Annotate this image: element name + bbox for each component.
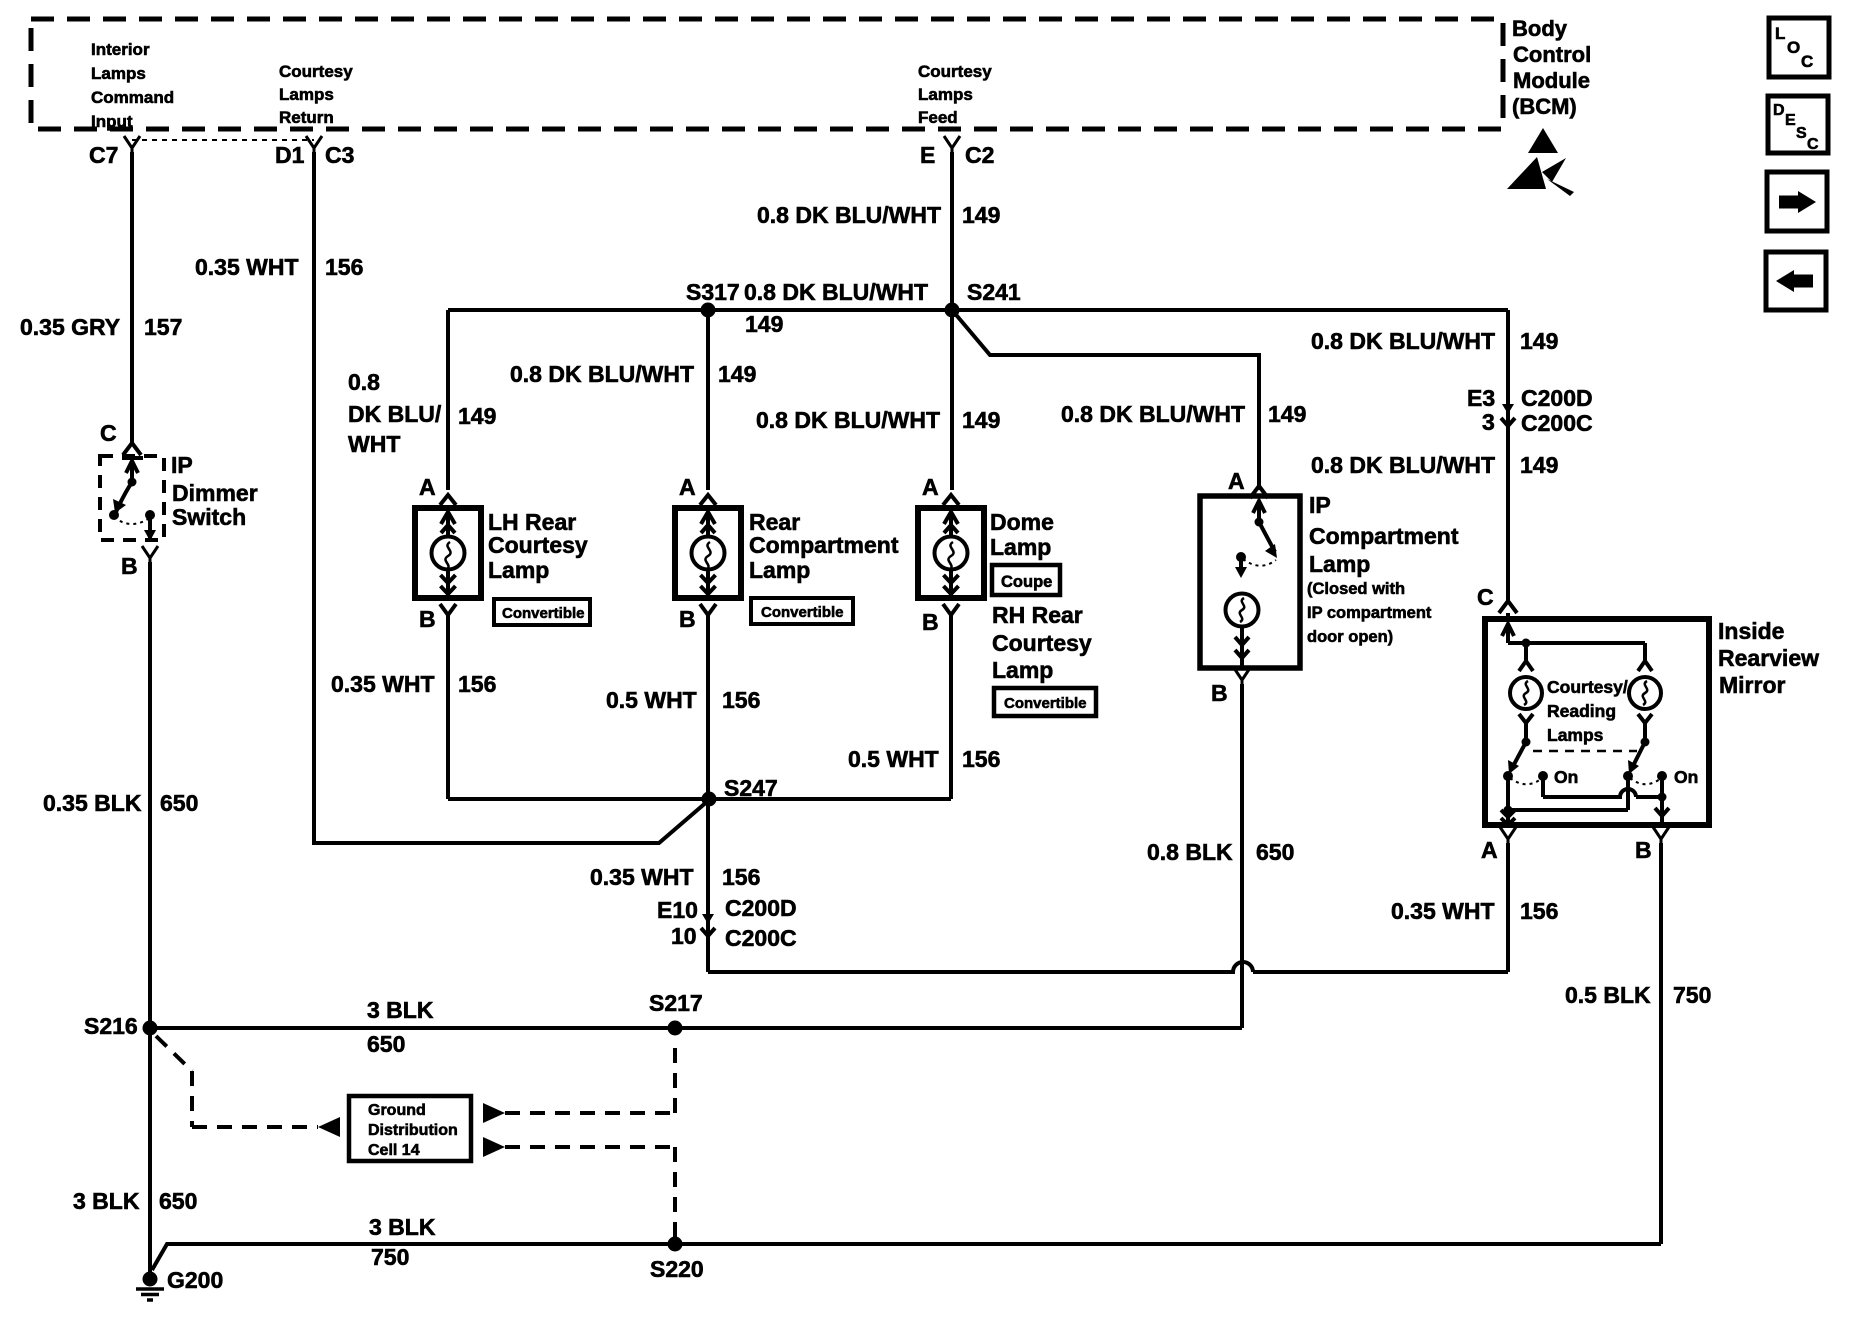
pin A chevron IP lamp: [1250, 486, 1268, 498]
svg-text:Distribution: Distribution: [368, 1122, 458, 1139]
LOC nav box: [1769, 18, 1829, 77]
svg-text:0.5 BLK: 0.5 BLK: [1565, 982, 1651, 1008]
svg-text:DK BLU/: DK BLU/: [348, 401, 442, 427]
svg-text:149: 149: [1268, 401, 1306, 427]
lamp LH Rear Courtesy Lamp: [415, 495, 481, 622]
pin label Courtesy Lamps Feed: [918, 62, 992, 127]
wire S216 down to ground: [148, 1028, 152, 1273]
wire 3 BLK 650 ground bus S216 to IP lamp drop: [150, 1026, 1242, 1030]
svg-text:156: 156: [962, 746, 1000, 772]
svg-text:Compartment: Compartment: [749, 532, 899, 558]
pin A connector mirror: [1500, 827, 1516, 843]
wire 0.8 BLK 650 IP lamp B down: [1240, 684, 1244, 1028]
pin B connector mirror: [1653, 827, 1669, 843]
node mirror A junction: [1504, 806, 1513, 815]
wire S247 return bus: [448, 797, 951, 801]
dashed reference to S220: [505, 1147, 675, 1240]
svg-text:0.8 BLK: 0.8 BLK: [1147, 839, 1233, 865]
svg-text:149: 149: [745, 311, 783, 337]
svg-text:Lamp: Lamp: [1309, 551, 1370, 577]
label Inside Rearview Mirror: [1718, 618, 1819, 698]
svg-text:149: 149: [1520, 452, 1558, 478]
svg-text:149: 149: [458, 403, 496, 429]
inside rearview mirror box: [1485, 619, 1709, 825]
svg-text:Lamp: Lamp: [488, 557, 549, 583]
connector D1/C3 symbol: [306, 136, 322, 152]
svg-text:B: B: [679, 606, 696, 632]
ESD sensitive symbol: [1507, 128, 1574, 196]
connector C200D/C200C at E3: [1501, 394, 1515, 434]
svg-text:0.8 DK BLU/WHT: 0.8 DK BLU/WHT: [1311, 452, 1495, 478]
svg-text:Ground: Ground: [368, 1102, 426, 1119]
svg-text:RH Rear: RH Rear: [992, 602, 1083, 628]
svg-text:0.35 BLK: 0.35 BLK: [43, 790, 142, 816]
svg-text:149: 149: [962, 202, 1000, 228]
wire 0.5 BLK 750 mirror B down: [1659, 843, 1663, 1244]
DESC nav box: [1768, 96, 1828, 153]
svg-text:(BCM): (BCM): [1512, 94, 1577, 119]
svg-text:Convertible: Convertible: [1004, 695, 1087, 712]
svg-text:0.8 DK BLU/WHT: 0.8 DK BLU/WHT: [744, 279, 928, 305]
svg-text:E10: E10: [657, 897, 698, 923]
svg-text:Courtesy: Courtesy: [279, 62, 353, 81]
svg-text:Courtesy: Courtesy: [992, 630, 1092, 656]
svg-text:0.8: 0.8: [348, 369, 380, 395]
svg-text:Dome: Dome: [990, 509, 1054, 535]
svg-text:S220: S220: [650, 1256, 704, 1282]
svg-text:Lamp: Lamp: [749, 557, 810, 583]
ground distribution cell box: [349, 1096, 471, 1161]
svg-text:C: C: [1477, 584, 1494, 610]
wire 0.35 WHT 156 from C3 down and right to S247: [314, 152, 709, 843]
svg-text:Return: Return: [279, 108, 334, 127]
svg-text:E: E: [1785, 112, 1796, 129]
label Convertible boxed rear compartment: [751, 598, 853, 624]
svg-text:C: C: [100, 420, 117, 446]
svg-text:door open): door open): [1307, 628, 1393, 646]
lamp Dome Lamp: [918, 495, 984, 622]
svg-text:A: A: [1228, 468, 1245, 494]
svg-text:On: On: [1554, 767, 1578, 787]
wire rear compartment lamp feed from S317 down: [706, 310, 710, 490]
svg-text:Reading: Reading: [1547, 701, 1616, 721]
svg-text:O: O: [1787, 38, 1800, 57]
svg-text:B: B: [121, 553, 138, 579]
wire 0.35 GRY 157 from C7 to dimmer switch: [130, 152, 134, 445]
svg-text:On: On: [1674, 767, 1698, 787]
svg-text:Input: Input: [91, 112, 133, 131]
svg-text:C: C: [1801, 52, 1813, 71]
svg-text:Courtesy: Courtesy: [918, 62, 992, 81]
svg-text:C200D: C200D: [1521, 385, 1593, 411]
svg-text:Rearview: Rearview: [1718, 645, 1819, 671]
svg-text:B: B: [419, 606, 436, 632]
svg-text:Courtesy/: Courtesy/: [1547, 677, 1628, 697]
svg-text:3 BLK: 3 BLK: [367, 997, 434, 1023]
svg-text:Feed: Feed: [918, 108, 958, 127]
svg-text:0.8 DK BLU/WHT: 0.8 DK BLU/WHT: [756, 407, 940, 433]
label Courtesy Reading Lamps: [1547, 677, 1628, 745]
svg-text:157: 157: [144, 314, 182, 340]
dashed reference to S217: [505, 1038, 675, 1113]
pin label Courtesy Lamps Return: [279, 62, 353, 127]
svg-text:156: 156: [325, 254, 363, 280]
arrow into ground distribution left: [318, 1117, 340, 1137]
svg-text:Convertible: Convertible: [502, 605, 585, 622]
svg-text:Body: Body: [1512, 16, 1568, 41]
label IP Compartment Lamp: [1309, 492, 1459, 577]
pin label Interior Lamps Command Input: [91, 40, 174, 131]
svg-text:Compartment: Compartment: [1309, 523, 1459, 549]
svg-text:Inside: Inside: [1718, 618, 1784, 644]
label RH Rear Courtesy Lamp: [992, 602, 1092, 683]
connector C7 symbol: [124, 136, 140, 152]
svg-text:D: D: [1773, 102, 1785, 119]
svg-text:0.5 WHT: 0.5 WHT: [848, 746, 939, 772]
wire main feed bus S317 S241: [448, 308, 1508, 312]
pin B connector IP lamp: [1234, 668, 1250, 684]
wire LH lamp B to S247 run: [446, 618, 450, 799]
lamp Rear Compartment Lamp: [675, 495, 741, 622]
IP dimmer switch internals: [114, 458, 150, 538]
wire 0.8 DK BLU/WHT 149 from C2 to S241: [950, 152, 954, 310]
svg-text:650: 650: [160, 790, 198, 816]
svg-text:Lamp: Lamp: [992, 657, 1053, 683]
svg-text:Mirror: Mirror: [1719, 672, 1786, 698]
label Rear Compartment Lamp: [749, 509, 899, 583]
connector C200D/C200C at E10: [701, 904, 715, 944]
svg-text:Convertible: Convertible: [761, 604, 844, 621]
wire 3 BLK 750 bottom bus: [152, 1244, 1661, 1270]
svg-text:A: A: [1481, 837, 1498, 863]
svg-text:A: A: [679, 474, 696, 500]
svg-text:B: B: [922, 609, 939, 635]
svg-text:C: C: [1807, 136, 1819, 153]
mirror output wiring to A: [1501, 776, 1628, 825]
svg-text:L: L: [1775, 24, 1785, 43]
svg-text:Courtesy: Courtesy: [488, 532, 588, 558]
svg-text:650: 650: [1256, 839, 1294, 865]
svg-text:650: 650: [159, 1188, 197, 1214]
svg-text:156: 156: [458, 671, 496, 697]
wire 0.35 WHT 156 mirror A down: [1506, 843, 1510, 972]
Body Control Module BCM dashed box: [31, 19, 1503, 129]
wire rear compartment B down: [706, 618, 710, 799]
label LH Rear Courtesy Lamp: [488, 509, 588, 583]
dashed reference from S216 to ground distribution: [156, 1036, 318, 1127]
svg-text:10: 10: [671, 923, 697, 949]
dashed tie line C7 to D1: [132, 139, 314, 141]
svg-text:149: 149: [718, 361, 756, 387]
svg-text:A: A: [419, 474, 436, 500]
svg-text:C200D: C200D: [725, 895, 797, 921]
svg-text:Coupe: Coupe: [1001, 573, 1052, 591]
wire C into mirror box: [1506, 613, 1510, 622]
left arrow nav box: [1766, 252, 1826, 310]
svg-text:750: 750: [371, 1244, 409, 1270]
svg-text:C200C: C200C: [725, 925, 797, 951]
svg-text:0.8 DK BLU/WHT: 0.8 DK BLU/WHT: [510, 361, 694, 387]
wire IP compartment lamp feed from S241: [952, 310, 1259, 490]
IP lamp switch internals: [1241, 501, 1276, 572]
svg-text:3: 3: [1482, 409, 1495, 435]
svg-text:WHT: WHT: [348, 431, 400, 457]
svg-text:0.5 WHT: 0.5 WHT: [606, 687, 697, 713]
node S317: [701, 303, 716, 318]
label 0.8 DK BLU/WHT three lines: [348, 369, 442, 457]
label Coupe boxed: [992, 565, 1060, 595]
svg-text:156: 156: [722, 864, 760, 890]
svg-text:Control: Control: [1513, 42, 1591, 67]
svg-text:IP compartment: IP compartment: [1307, 604, 1432, 622]
svg-text:S247: S247: [724, 775, 778, 801]
node mirror feed junction: [1522, 639, 1531, 648]
wire S247 down to E10 and right to mirror A: [708, 799, 1508, 972]
svg-text:IP: IP: [171, 452, 193, 478]
svg-text:S241: S241: [967, 279, 1021, 305]
svg-text:Cell 14: Cell 14: [368, 1142, 420, 1159]
label IP Dimmer Switch: [171, 452, 258, 530]
svg-text:Dimmer: Dimmer: [172, 480, 258, 506]
svg-text:650: 650: [367, 1031, 405, 1057]
connector E/C2 symbol: [944, 136, 960, 152]
svg-text:3 BLK: 3 BLK: [369, 1214, 436, 1240]
pin B of dimmer switch: [142, 546, 158, 562]
svg-text:E: E: [920, 142, 935, 168]
svg-text:S217: S217: [649, 990, 703, 1016]
svg-text:Interior: Interior: [91, 40, 150, 59]
mirror right courtesy reading lamp: [1629, 677, 1661, 709]
mirror left lamp switch: [1510, 714, 1541, 784]
svg-text:Lamps: Lamps: [918, 85, 973, 104]
svg-text:Lamp: Lamp: [990, 534, 1051, 560]
svg-text:0.35 WHT: 0.35 WHT: [590, 864, 694, 890]
label Convertible boxed LH: [494, 599, 590, 625]
svg-text:3 BLK: 3 BLK: [73, 1188, 140, 1214]
svg-text:0.35 WHT: 0.35 WHT: [331, 671, 435, 697]
mirror output wiring to B: [1543, 776, 1669, 825]
svg-text:149: 149: [962, 407, 1000, 433]
svg-text:C3: C3: [325, 142, 354, 168]
node S216: [143, 1021, 158, 1036]
svg-text:Lamps: Lamps: [91, 64, 146, 83]
wire LH lamp feed from bus corner down: [446, 310, 450, 490]
svg-text:E3: E3: [1467, 385, 1495, 411]
svg-text:C200C: C200C: [1521, 410, 1593, 436]
arrow out ground distribution top right: [483, 1103, 505, 1123]
svg-text:Lamps: Lamps: [1547, 725, 1604, 745]
svg-text:0.8 DK BLU/WHT: 0.8 DK BLU/WHT: [1061, 401, 1245, 427]
mirror internal feed wiring: [1502, 624, 1652, 671]
svg-text:156: 156: [1520, 898, 1558, 924]
svg-text:S317: S317: [686, 279, 740, 305]
label Dome Lamp: [990, 509, 1054, 560]
wire 0.35 BLK 650 dimmer B to S216: [148, 562, 152, 1028]
svg-text:IP: IP: [1309, 492, 1331, 518]
BCM label: [1512, 16, 1591, 119]
IP lamp bulb: [1226, 594, 1259, 627]
node mirror B junction: [1658, 793, 1667, 802]
ground G200: [136, 1272, 164, 1301]
svg-text:0.35 GRY: 0.35 GRY: [20, 314, 120, 340]
node S241: [945, 303, 960, 318]
node S217: [668, 1021, 683, 1036]
label Ground Distribution Cell 14: [368, 1102, 458, 1159]
dashed link between switches: [1533, 750, 1637, 753]
node S247: [702, 792, 717, 807]
svg-text:0.8 DK BLU/WHT: 0.8 DK BLU/WHT: [1311, 328, 1495, 354]
right arrow nav box: [1767, 172, 1827, 231]
arrow out ground distribution bottom right: [483, 1137, 505, 1157]
wire dome lamp feed from S241 down: [950, 310, 954, 490]
pin C of dimmer switch: [123, 443, 141, 455]
svg-text:0.35 WHT: 0.35 WHT: [1391, 898, 1495, 924]
svg-text:156: 156: [722, 687, 760, 713]
svg-text:Lamps: Lamps: [279, 85, 334, 104]
mirror left courtesy reading lamp: [1510, 677, 1542, 709]
svg-text:S: S: [1796, 125, 1807, 142]
svg-text:C7: C7: [89, 142, 118, 168]
svg-text:C2: C2: [965, 142, 994, 168]
svg-text:B: B: [1211, 680, 1228, 706]
IP compartment lamp box: [1200, 496, 1300, 668]
wire feed to C200 and mirror: [1506, 310, 1510, 600]
wire dome B down: [949, 618, 953, 799]
label closed with IP compartment door open: [1307, 580, 1432, 646]
pin C connector mirror: [1499, 601, 1517, 613]
mirror right lamp switch: [1630, 714, 1660, 784]
svg-text:Switch: Switch: [172, 504, 246, 530]
svg-text:Module: Module: [1513, 68, 1590, 93]
svg-text:Command: Command: [91, 88, 174, 107]
svg-text:A: A: [922, 474, 939, 500]
label Convertible boxed RH: [994, 688, 1096, 716]
svg-text:D1: D1: [275, 142, 305, 168]
svg-text:G200: G200: [167, 1267, 223, 1293]
svg-text:0.35 WHT: 0.35 WHT: [195, 254, 299, 280]
svg-text:149: 149: [1520, 328, 1558, 354]
IP dimmer switch dashed box: [100, 456, 164, 540]
svg-text:0.8 DK BLU/WHT: 0.8 DK BLU/WHT: [757, 202, 941, 228]
svg-text:(Closed with: (Closed with: [1307, 580, 1405, 598]
svg-text:750: 750: [1673, 982, 1711, 1008]
node S220: [668, 1237, 683, 1252]
svg-text:S216: S216: [84, 1013, 138, 1039]
svg-text:B: B: [1635, 837, 1652, 863]
